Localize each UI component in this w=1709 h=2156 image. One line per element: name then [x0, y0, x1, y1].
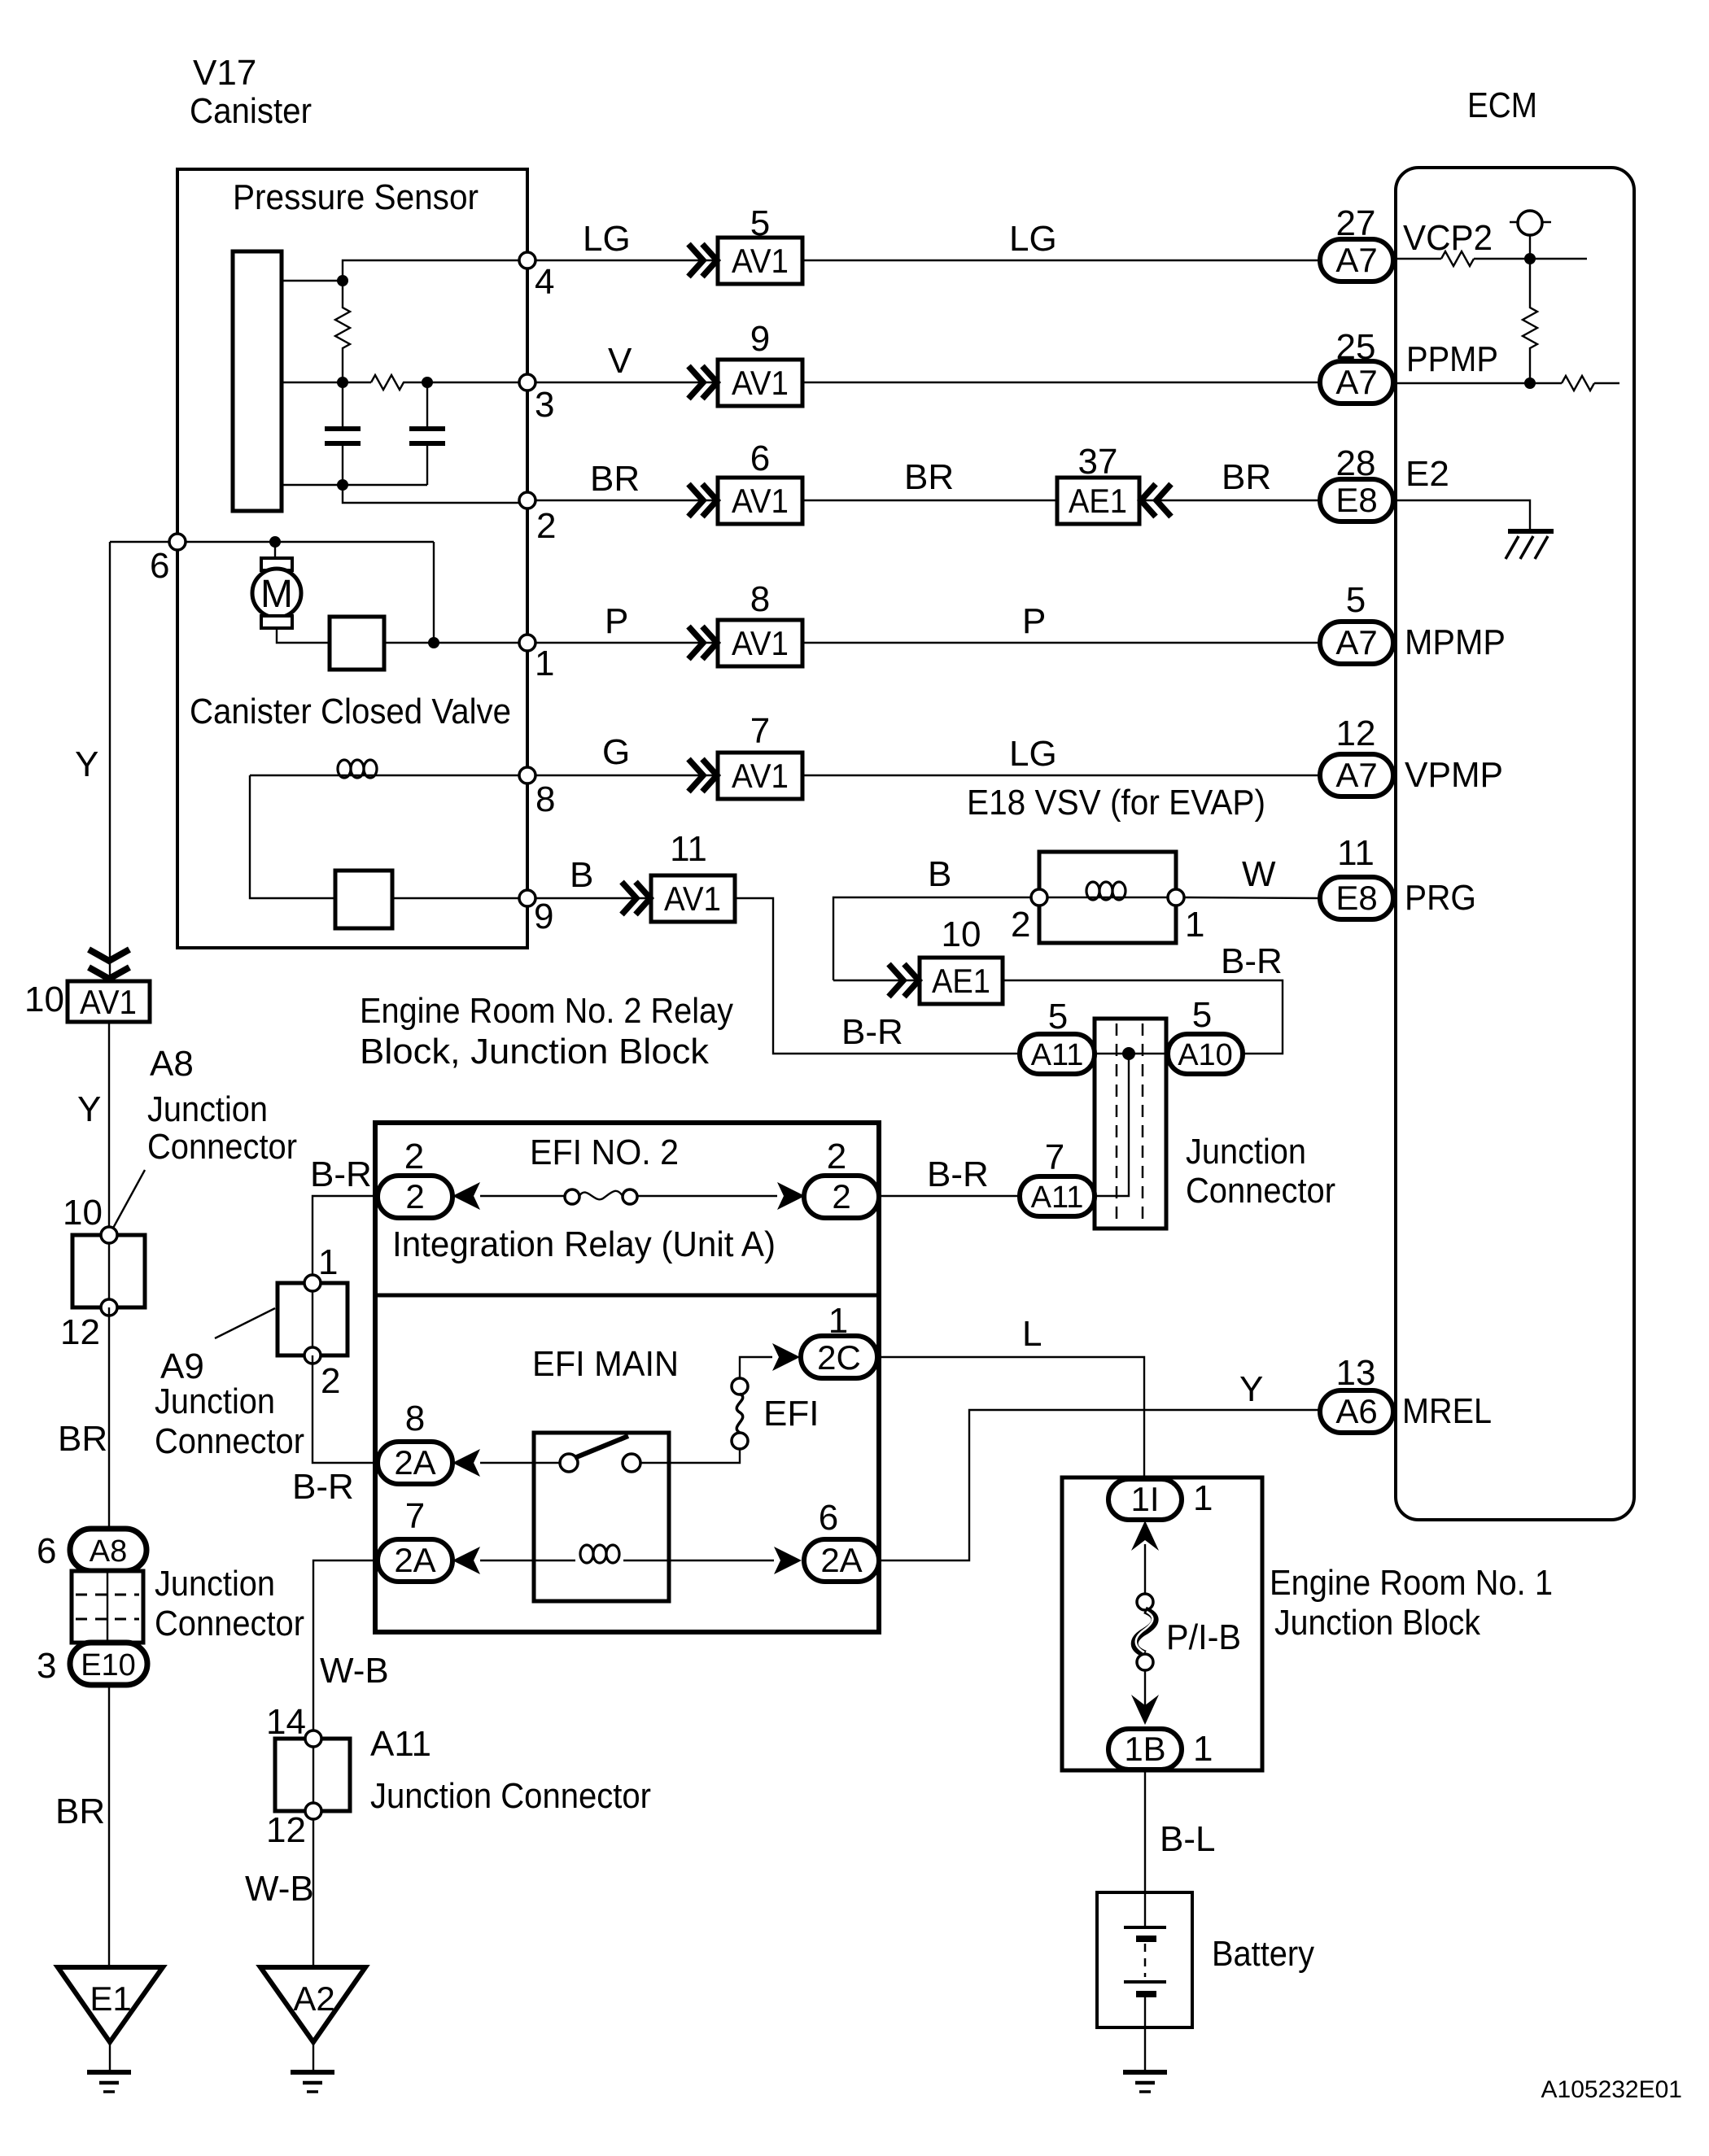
wire node6 branch down to valve line [433, 542, 435, 643]
svg-text:B-R: B-R [927, 1154, 989, 1194]
svg-text:LG: LG [1009, 734, 1057, 774]
connector oval A8 (6) [37, 1529, 146, 1571]
svg-text:14: 14 [266, 1702, 306, 1742]
connector AV1 (7) [718, 711, 802, 799]
svg-text:2: 2 [832, 1177, 850, 1215]
ECM pin A7-27 VCP2 [1320, 203, 1393, 282]
resistor PPMP [1562, 376, 1594, 391]
wire switch row [480, 1449, 740, 1463]
inductor VSV coil [1086, 882, 1125, 900]
svg-text:E18 VSV (for EVAP): E18 VSV (for EVAP) [967, 783, 1265, 823]
svg-text:E1: E1 [90, 1979, 131, 2018]
svg-text:6: 6 [37, 1531, 56, 1571]
terminal circle pin9 [519, 890, 553, 936]
wire motor to valve square [277, 628, 330, 643]
svg-text:B-R: B-R [310, 1154, 372, 1194]
arrow into relay oval 2A-7 [452, 1547, 480, 1574]
svg-text:37: 37 [1078, 442, 1118, 482]
svg-text:1: 1 [1185, 905, 1204, 945]
svg-text:LG: LG [1009, 219, 1057, 259]
label Canister Closed Valve [190, 692, 511, 731]
resistor sensor horizontal [371, 375, 407, 390]
wire B-R oval2 to A9 [310, 1154, 378, 1283]
wire Y from 2A-6 to MREL [879, 1369, 1319, 1560]
svg-text:Y: Y [1239, 1369, 1263, 1409]
junction connector A11 box [275, 1739, 350, 1811]
svg-text:Junction: Junction [155, 1381, 275, 1421]
battery cells [1124, 1892, 1166, 2070]
wire Y left chain [75, 542, 110, 981]
svg-text:B-R: B-R [841, 1012, 903, 1052]
svg-text:5: 5 [1192, 995, 1212, 1035]
terminal circle VSV 2 [1011, 889, 1047, 945]
svg-text:BR: BR [904, 457, 954, 497]
svg-text:Block, Junction Block: Block, Junction Block [360, 1032, 710, 1071]
connector oval A11 (5) [1020, 997, 1095, 1074]
svg-text:3: 3 [535, 385, 554, 425]
terminal circle A8-10 [63, 1193, 117, 1243]
label ECM [1467, 85, 1537, 125]
chevrons into AV1 (11) [622, 882, 650, 914]
wire BR A8 to oval [58, 1307, 109, 1530]
label A11 Junction Connector [370, 1724, 651, 1816]
wire L from 2C to 1I [877, 1314, 1144, 1479]
pointer line A9 [215, 1308, 275, 1338]
label Battery [1212, 1934, 1314, 1974]
wire coil row [480, 1560, 774, 1561]
wire W-B A11 to A2 [245, 1819, 314, 1967]
chevrons into AV1 (9) [688, 366, 717, 399]
svg-text:2: 2 [321, 1361, 340, 1401]
ECM pin A7-5 MPMP [1320, 580, 1393, 664]
pointer line A8 [111, 1170, 145, 1231]
motor M circle [252, 569, 301, 618]
wire P row right [802, 601, 1319, 643]
svg-text:PPMP: PPMP [1406, 339, 1498, 379]
label Junction Connector right [1186, 1132, 1335, 1211]
label V17 Canister [190, 53, 312, 131]
svg-text:AE1: AE1 [932, 962, 990, 1000]
label EFI NO. 2 [530, 1133, 679, 1172]
connector oval A11 (7) [1020, 1137, 1095, 1216]
inductor relay coil [580, 1545, 619, 1563]
svg-text:A7: A7 [1335, 241, 1377, 279]
relay oval 2 left [378, 1137, 452, 1218]
wire PPMP internal [1395, 382, 1619, 384]
ECM pin E8-28 E2 [1320, 443, 1393, 522]
svg-text:2C: 2C [817, 1338, 861, 1377]
svg-text:M: M [260, 573, 293, 616]
svg-text:L: L [1022, 1314, 1042, 1354]
terminal circle A9-1 [304, 1242, 338, 1291]
svg-text:Engine Room No. 1: Engine Room No. 1 [1270, 1563, 1553, 1603]
svg-text:V17: V17 [193, 53, 256, 93]
svg-text:11: 11 [1337, 833, 1375, 873]
terminal circle pin2 [519, 492, 556, 546]
wire A2 to ground [313, 2042, 314, 2071]
resistor sensor vertical [335, 281, 350, 382]
svg-text:27: 27 [1336, 203, 1376, 243]
label drawing number [1541, 2076, 1683, 2103]
svg-text:A7: A7 [1335, 623, 1377, 661]
svg-text:VCP2: VCP2 [1403, 218, 1493, 258]
svg-text:P/I-B: P/I-B [1166, 1617, 1241, 1657]
arrow down into 1B [1131, 1695, 1159, 1725]
svg-text:1B: 1B [1124, 1730, 1165, 1768]
supply circle VCP2 [1510, 211, 1551, 235]
junction dot in junction connector [1122, 1047, 1135, 1060]
svg-text:2: 2 [1011, 905, 1030, 945]
relay oval 1B [1108, 1729, 1213, 1770]
chevrons into AE1 (10) [889, 964, 919, 997]
chevrons into AV1 (8) [688, 626, 717, 659]
wire node6 horizontal [110, 541, 434, 543]
wire motor stem top [274, 542, 276, 558]
pressure sensor element rectangle [233, 251, 282, 511]
svg-text:6: 6 [750, 439, 770, 478]
svg-text:Y: Y [75, 744, 98, 784]
svg-text:6: 6 [819, 1498, 838, 1538]
wire lower square to pin9 [392, 897, 519, 899]
svg-text:W-B: W-B [245, 1869, 314, 1909]
svg-text:Canister Closed Valve: Canister Closed Valve [190, 692, 511, 731]
svg-text:3: 3 [37, 1646, 56, 1686]
fuse EFI vertical [732, 1378, 819, 1449]
arrow into relay oval 2 left [452, 1182, 480, 1210]
svg-text:P: P [1022, 601, 1046, 641]
relay oval 2A (7) [378, 1496, 452, 1582]
junction dot middle left [337, 377, 348, 388]
svg-text:A8: A8 [90, 1534, 127, 1569]
junction connector A8 box [72, 1235, 145, 1307]
terminal circle node6 [150, 534, 186, 586]
svg-text:1I: 1I [1130, 1480, 1159, 1518]
svg-text:10: 10 [63, 1193, 103, 1233]
connector AE1 (10) [920, 914, 1003, 1004]
ECM pin A6-13 MREL [1320, 1353, 1393, 1433]
battery box [1097, 1892, 1192, 2027]
svg-text:BR: BR [1222, 457, 1271, 497]
arrow into relay oval 2A-6 [774, 1547, 802, 1574]
ECM pin A7-25 PPMP [1320, 327, 1393, 404]
inductor solenoid coil [338, 760, 377, 778]
svg-text:A2: A2 [293, 1979, 334, 2018]
wire V row left [535, 341, 718, 382]
svg-text:AV1: AV1 [732, 757, 789, 795]
svg-text:5: 5 [1048, 997, 1068, 1037]
connector oval E10 (3) [37, 1643, 147, 1686]
wire solenoid coil loop to pin8 [250, 775, 519, 898]
wire sensor bottom to pin2 [282, 485, 519, 503]
label Engine Room No. 2 Relay Block, Junction Block [360, 991, 733, 1071]
svg-text:9: 9 [750, 319, 770, 359]
svg-text:Connector: Connector [147, 1127, 297, 1167]
canister closed valve square upper [330, 617, 384, 670]
label MREL [1402, 1391, 1492, 1431]
wire B-R from AV1 (11) to A11 (5) [735, 898, 1020, 1054]
svg-text:2A: 2A [394, 1443, 435, 1482]
wire inside VSV [1047, 897, 1168, 898]
relay switch contacts [560, 1436, 640, 1472]
svg-text:Junction: Junction [147, 1089, 268, 1129]
wire G row right [802, 734, 1319, 775]
svg-text:PRG: PRG [1405, 878, 1476, 918]
svg-text:Connector: Connector [1186, 1171, 1335, 1211]
svg-text:A9: A9 [160, 1346, 204, 1386]
svg-text:10: 10 [24, 980, 64, 1019]
svg-text:BR: BR [590, 459, 640, 499]
arrow into relay oval 2A-8 [452, 1449, 480, 1477]
svg-text:1: 1 [828, 1301, 848, 1341]
svg-text:Junction Block: Junction Block [1274, 1603, 1481, 1643]
svg-text:Junction Connector: Junction Connector [370, 1776, 651, 1816]
chevrons into AV1 (7) [688, 759, 717, 792]
label PRG [1405, 878, 1476, 918]
svg-text:2: 2 [405, 1177, 424, 1215]
capacitor C-left [325, 382, 361, 485]
connector oval A10 (5) [1168, 995, 1243, 1074]
svg-text:2A: 2A [820, 1541, 862, 1579]
junction dot middle right [422, 377, 433, 388]
svg-text:E8: E8 [1335, 481, 1377, 519]
arrow into relay oval 2C [772, 1343, 800, 1371]
chevrons into AV1 (6) [688, 484, 717, 517]
wire valve square to pin1 [384, 642, 519, 644]
svg-text:AV1: AV1 [732, 482, 789, 520]
connector AE1 (37) [1057, 442, 1139, 524]
svg-text:25: 25 [1336, 327, 1376, 367]
wire 1I to fusible link [1144, 1544, 1146, 1594]
wire G row left [535, 732, 718, 775]
svg-text:B-L: B-L [1160, 1819, 1215, 1859]
label EFI MAIN [532, 1344, 679, 1384]
label Pressure Sensor [233, 177, 479, 217]
wire B to AE1 (10) [833, 980, 920, 981]
connector AV1 (6) [718, 439, 802, 524]
svg-text:B-R: B-R [1221, 941, 1283, 981]
label A9 Junction Connector [155, 1346, 304, 1461]
label E2 [1405, 454, 1449, 494]
svg-text:6: 6 [150, 546, 169, 586]
svg-text:W: W [1242, 854, 1276, 894]
svg-text:7: 7 [1045, 1137, 1064, 1177]
svg-text:EFI: EFI [763, 1394, 819, 1434]
terminal circle pin4 [519, 252, 554, 302]
svg-text:A11: A11 [370, 1724, 431, 1764]
arrow into relay oval 2 right [777, 1182, 805, 1210]
wire BR row middle [802, 457, 1057, 500]
svg-text:1: 1 [1193, 1478, 1213, 1518]
svg-text:5: 5 [750, 203, 770, 243]
svg-text:AE1: AE1 [1069, 482, 1127, 520]
svg-text:Integration Relay (Unit A): Integration Relay (Unit A) [392, 1224, 776, 1264]
terminal circle pin1 [519, 635, 554, 683]
svg-text:B: B [928, 854, 951, 894]
svg-text:A11: A11 [1031, 1181, 1084, 1215]
svg-text:2: 2 [536, 506, 556, 546]
svg-text:A7: A7 [1335, 363, 1377, 401]
wire E2 internal [1395, 500, 1530, 530]
terminal circle pin8 [519, 767, 555, 819]
svg-text:VPMP: VPMP [1405, 755, 1503, 795]
svg-text:10: 10 [942, 914, 981, 954]
wire E1 to ground [109, 2042, 111, 2071]
wire W-B from 2A (7) to A11 connector [313, 1560, 389, 1739]
connector AV1 (5) [718, 203, 802, 284]
svg-text:E8: E8 [1335, 879, 1377, 917]
svg-text:12: 12 [60, 1312, 100, 1352]
svg-text:Connector: Connector [155, 1421, 304, 1461]
label E18 VSV (for EVAP) [967, 783, 1265, 823]
connector AV1 (10) [24, 980, 150, 1022]
svg-text:8: 8 [535, 779, 555, 819]
wire B-R from AE1 (10) to A10 (5) [1003, 941, 1283, 1054]
svg-text:AV1: AV1 [664, 879, 721, 918]
svg-text:B-R: B-R [292, 1467, 354, 1507]
junction connector box A11/A10 [1095, 1019, 1166, 1229]
terminal circle A9-2 [304, 1347, 340, 1401]
wire pin4 to sensor [282, 260, 519, 281]
svg-text:AV1: AV1 [80, 983, 137, 1021]
ground triangle A2 [260, 1967, 365, 2042]
svg-text:Pressure Sensor: Pressure Sensor [233, 177, 479, 217]
junction dot PPMP [1524, 378, 1536, 389]
terminal circle A11-12 [266, 1803, 321, 1850]
svg-text:W-B: W-B [320, 1651, 389, 1691]
chevrons down into AV1 (10) [89, 949, 129, 979]
label VPMP [1405, 755, 1503, 795]
svg-text:V: V [608, 341, 632, 381]
ground triangle E1 [58, 1967, 163, 2042]
terminal circle A8-12 [60, 1299, 117, 1352]
svg-text:Junction: Junction [155, 1564, 275, 1604]
junction connector A9 box [278, 1283, 347, 1355]
label VCP2 [1403, 218, 1493, 258]
svg-text:Junction: Junction [1186, 1132, 1306, 1172]
ECM box [1396, 168, 1634, 1520]
svg-text:A105232E01: A105232E01 [1541, 2076, 1683, 2103]
ground battery [1123, 2072, 1167, 2092]
relay oval 2C [801, 1301, 877, 1378]
V17 canister outer box [177, 169, 527, 948]
wire EFI fuse to 2C [740, 1357, 772, 1378]
chevrons into AV1 (5) [688, 244, 717, 277]
ECM pin E8-11 PRG [1320, 833, 1393, 919]
label Junction Connector left [155, 1564, 304, 1643]
chevrons into AE1 (37) [1141, 484, 1171, 517]
svg-text:13: 13 [1336, 1353, 1376, 1393]
fusible link P/I-B [1134, 1594, 1241, 1670]
svg-text:8: 8 [750, 579, 770, 619]
wire LG row right [802, 219, 1319, 260]
relay oval 1I [1108, 1478, 1213, 1520]
wire sensor middle to pin3 [282, 382, 519, 383]
wire through junction connector [1095, 1054, 1166, 1196]
junction dot pin1 line [428, 637, 439, 648]
connector AV1 (9) [718, 319, 802, 406]
svg-text:11: 11 [670, 829, 707, 869]
canister closed valve square lower [335, 871, 392, 928]
motor M brush top [261, 558, 292, 570]
wire B-R A9 to 2A (8) [292, 1355, 378, 1507]
connector AV1 (11) [651, 829, 735, 922]
relay oval 2 right [804, 1137, 879, 1218]
label PPMP [1406, 339, 1498, 379]
wire B-L to battery [1145, 1770, 1215, 1892]
svg-text:A11: A11 [1031, 1038, 1084, 1072]
svg-text:4: 4 [535, 262, 554, 302]
wire fuse EFI NO.2 [480, 1195, 777, 1197]
svg-text:1: 1 [535, 644, 554, 683]
junction dot motor tap [269, 536, 281, 548]
resistor pullup vertical [1523, 259, 1537, 383]
svg-text:Canister: Canister [190, 91, 312, 131]
label MPMP [1405, 622, 1506, 662]
wire P row left [535, 601, 718, 643]
wire LG row left [535, 219, 718, 260]
wire fusible link to 1B [1144, 1670, 1146, 1706]
wire BR E10 to E1 [55, 1685, 109, 1967]
svg-text:ECM: ECM [1467, 85, 1537, 125]
fuse EFI NO.2 [565, 1189, 637, 1204]
junction dot sensor top [337, 275, 348, 286]
svg-text:A8: A8 [150, 1044, 194, 1084]
svg-text:AV1: AV1 [732, 242, 789, 280]
label Integration Relay (Unit A) [392, 1224, 776, 1264]
relay block divider [375, 1294, 879, 1298]
svg-text:Battery: Battery [1212, 1934, 1314, 1974]
svg-text:AV1: AV1 [732, 364, 789, 402]
svg-text:7: 7 [750, 711, 770, 751]
svg-text:A6: A6 [1335, 1392, 1377, 1430]
svg-text:Connector: Connector [155, 1604, 304, 1643]
label A8 Junction Connector [147, 1044, 297, 1167]
terminal circle pin3 [519, 374, 554, 425]
wire VCP2 internal [1395, 235, 1587, 259]
svg-text:2A: 2A [394, 1541, 435, 1579]
ground chassis E2 [1506, 531, 1554, 559]
wire BR row left [535, 459, 718, 500]
svg-text:G: G [602, 732, 630, 772]
wire W from VSV pin1 to PRG [1184, 854, 1319, 898]
svg-text:2: 2 [404, 1137, 424, 1176]
svg-text:12: 12 [266, 1810, 306, 1850]
svg-text:A10: A10 [1178, 1038, 1233, 1072]
svg-text:28: 28 [1336, 443, 1376, 483]
EFI MAIN relay box [534, 1433, 669, 1601]
relay oval 2A (6) [804, 1498, 879, 1582]
svg-text:1: 1 [1193, 1729, 1213, 1769]
svg-text:12: 12 [1336, 714, 1376, 753]
junction connector box A8/E10 [72, 1571, 143, 1643]
motor M brush bottom [261, 616, 292, 628]
svg-text:MREL: MREL [1402, 1391, 1492, 1431]
label Engine Room No. 1 Junction Block [1270, 1563, 1553, 1643]
relay block no.2 box [375, 1123, 879, 1632]
svg-text:E2: E2 [1405, 454, 1449, 494]
svg-text:P: P [605, 601, 628, 641]
junction dot sensor bottom [337, 479, 348, 491]
svg-text:BR: BR [58, 1419, 107, 1459]
wire B to VSV pin2 [833, 854, 1031, 980]
svg-text:LG: LG [583, 219, 631, 259]
svg-text:EFI MAIN: EFI MAIN [532, 1344, 679, 1384]
wire B row left [535, 855, 651, 898]
wire AV1 (10) to A8 connector [77, 1022, 109, 1235]
wire V row right [802, 382, 1319, 383]
terminal circle A11-14 [266, 1702, 321, 1747]
connector AV1 (8) [718, 579, 802, 666]
